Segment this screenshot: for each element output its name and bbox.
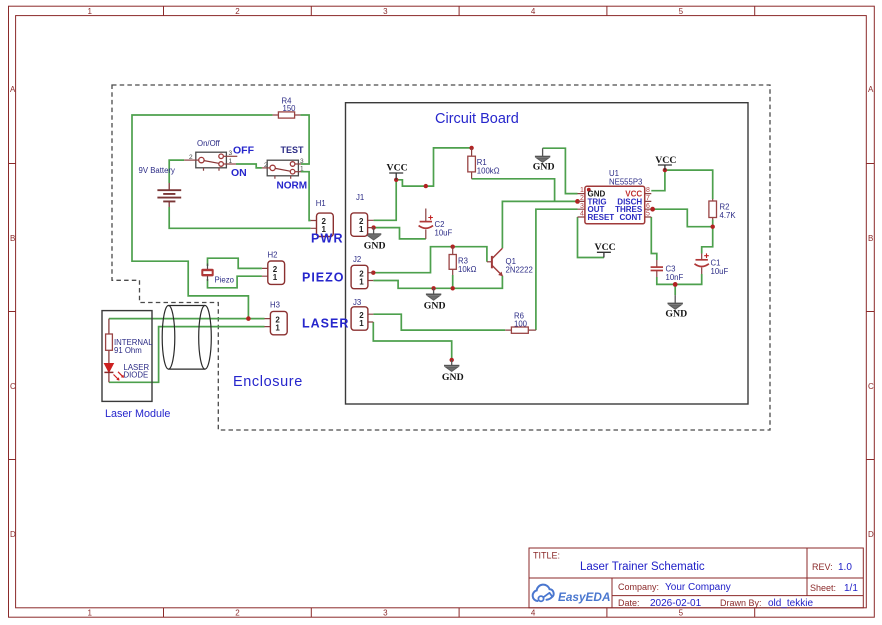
svg-text:B: B (10, 234, 15, 243)
junction J2 pin2 node (371, 271, 375, 275)
connector H2 (262, 251, 285, 285)
junction J3 GND node (450, 358, 454, 362)
svg-text:VCC: VCC (387, 163, 408, 174)
svg-text:ON: ON (231, 167, 247, 179)
junction R3 top node (451, 245, 455, 249)
svg-text:Piezo: Piezo (215, 276, 235, 285)
wire R1 bottom to TRIG net (472, 179, 555, 202)
svg-text:10kΩ: 10kΩ (458, 265, 477, 274)
junction C2 top node (424, 184, 428, 188)
junction J1 pin1 GND node (371, 225, 375, 229)
svg-text:GND: GND (364, 241, 386, 252)
wire R6 left to J3 pin2 (373, 314, 505, 330)
wire C2+ to R1 top (426, 148, 472, 186)
wire VCC right to 555 pin8 (651, 170, 665, 191)
switch S1 On/Off (184, 139, 237, 171)
wire battery+ to switch (169, 160, 184, 183)
svg-text:RESET: RESET (588, 213, 615, 222)
svg-text:CONT: CONT (620, 213, 643, 222)
resistor R3 10k (449, 247, 476, 275)
wire VCC to J1 pin2 (374, 180, 397, 221)
cable sleeve (162, 306, 211, 370)
TITLEBLOCK (529, 548, 863, 609)
svg-text:1: 1 (275, 323, 280, 332)
svg-text:10uF: 10uF (711, 267, 729, 276)
svg-text:150: 150 (283, 104, 297, 113)
svg-text:J3: J3 (353, 298, 361, 307)
wire laser module internal (108, 319, 110, 383)
junction THRES node (650, 207, 655, 212)
GND symbol R3 (424, 288, 446, 311)
wire NORM to H1 pin2 (301, 172, 311, 221)
svg-text:1/1: 1/1 (844, 583, 858, 594)
wire THRES to R2 bottom (651, 209, 712, 227)
svg-text:6: 6 (646, 203, 650, 210)
capacitor C3 10nF (651, 260, 684, 282)
svg-text:REV:: REV: (812, 562, 833, 572)
laser diode D1 (104, 363, 149, 381)
GND symbol top (533, 148, 555, 172)
svg-text:2: 2 (235, 7, 240, 16)
svg-text:Your Company: Your Company (665, 582, 731, 593)
enclosure dashed outline (112, 85, 770, 430)
wire R2 bottom to C1 top (702, 220, 713, 254)
svg-text:5: 5 (679, 609, 684, 618)
svg-text:H1: H1 (316, 199, 326, 208)
capacitor C2 10uF (419, 209, 453, 239)
connector H3 (265, 301, 288, 335)
svg-text:LASER: LASER (302, 317, 349, 331)
junction R1 top node (469, 146, 473, 150)
resistor R1 100k (468, 148, 500, 179)
wire OUT to R6 (536, 209, 578, 330)
svg-text:DIODE: DIODE (124, 371, 149, 380)
svg-text:GND: GND (533, 162, 555, 173)
EasyEDA logo (533, 585, 611, 604)
svg-text:Laser Module: Laser Module (105, 408, 170, 420)
svg-text:Laser Trainer Schematic: Laser Trainer Schematic (580, 561, 705, 573)
svg-text:Enclosure: Enclosure (233, 374, 303, 390)
svg-text:B: B (868, 234, 873, 243)
svg-text:1: 1 (359, 225, 364, 234)
svg-text:C: C (10, 382, 16, 391)
wire laser return to H3 pin1 (109, 327, 265, 383)
svg-text:2N2222: 2N2222 (506, 266, 533, 275)
junction R3 bottom node (451, 286, 455, 290)
wire VCC to C2+ (396, 180, 426, 186)
svg-text:Company:: Company: (618, 582, 659, 592)
svg-text:J2: J2 (353, 255, 361, 264)
svg-text:2: 2 (235, 609, 240, 618)
svg-text:D: D (10, 530, 16, 539)
svg-text:PWR: PWR (311, 232, 344, 246)
resistor R2 4.7K (709, 199, 736, 220)
svg-text:1: 1 (273, 273, 278, 282)
svg-text:100kΩ: 100kΩ (477, 167, 500, 176)
wire J3 pin1 to GND (373, 322, 451, 360)
GND symbol J1 (364, 228, 386, 252)
connector H1 (311, 199, 334, 237)
svg-text:100: 100 (514, 320, 528, 329)
junction GND rail node (431, 286, 435, 290)
GND symbol C3 C1 (665, 295, 687, 320)
svg-text:1: 1 (87, 7, 92, 16)
wire piezo top to H2 pin2 (208, 258, 262, 268)
resistor internal 91 Ohm (106, 334, 154, 355)
VCC symbol left (387, 163, 408, 180)
svg-text:9V Battery: 9V Battery (139, 166, 176, 175)
svg-text:1: 1 (300, 166, 304, 173)
wire VCC right to R2 top (665, 170, 713, 199)
wire TRIG to Q1 collector (502, 201, 577, 248)
svg-text:J1: J1 (356, 193, 364, 202)
svg-text:Sheet:: Sheet: (810, 583, 836, 593)
junction VCC-J1 node (394, 178, 398, 182)
svg-text:NE555P3: NE555P3 (609, 178, 642, 187)
svg-text:2: 2 (189, 154, 193, 161)
svg-text:3: 3 (383, 609, 388, 618)
svg-text:GND: GND (442, 372, 464, 383)
resistor R4 150 (273, 97, 301, 119)
svg-text:PIEZO: PIEZO (302, 271, 345, 285)
svg-text:2: 2 (580, 195, 584, 202)
junction TRIG node (575, 199, 580, 204)
laser module box (102, 311, 170, 420)
svg-text:3: 3 (300, 158, 304, 165)
wire J2 pin2 to R3 top to Q1 base (373, 247, 487, 273)
svg-text:GND: GND (665, 309, 687, 320)
wire piezo bottom to H2 pin1 (208, 276, 262, 288)
svg-text:10uF: 10uF (435, 229, 453, 238)
wire battery- to H1 pin1 (169, 207, 310, 228)
IC U1 NE555P3 (578, 169, 652, 224)
transistor Q1 2N2222 (487, 248, 533, 276)
svg-text:5: 5 (679, 7, 684, 16)
svg-text:A: A (10, 85, 16, 94)
piezo buzzer (202, 264, 235, 285)
connector J3 (351, 298, 373, 330)
svg-text:1: 1 (580, 187, 584, 194)
svg-text:91 Ohm: 91 Ohm (114, 346, 142, 355)
svg-text:EasyEDA: EasyEDA (558, 590, 610, 604)
svg-text:C: C (868, 382, 874, 391)
capacitor C1 10uF (695, 253, 729, 275)
svg-text:H2: H2 (268, 251, 278, 260)
connector J1 (351, 193, 374, 236)
svg-text:VCC: VCC (595, 242, 616, 253)
svg-text:On/Off: On/Off (197, 139, 221, 148)
wire GND to 555 pin1 (543, 148, 578, 193)
svg-text:D: D (868, 530, 874, 539)
svg-text:GND: GND (424, 301, 446, 312)
circuit board outline (346, 103, 749, 404)
connector J2 (351, 255, 373, 289)
wire ON: switch1 pin1 to TEST pin2 (236, 164, 262, 168)
wire R3 bottom (452, 275, 454, 288)
svg-text:3: 3 (229, 150, 233, 157)
svg-text:1: 1 (87, 609, 92, 618)
svg-text:Drawn By:: Drawn By: (720, 598, 762, 608)
svg-text:5: 5 (646, 211, 650, 218)
svg-text:OFF: OFF (233, 145, 255, 157)
junction R2 bottom node (711, 225, 715, 229)
svg-text:3: 3 (383, 7, 388, 16)
VCC symbol mid (595, 242, 616, 257)
wire CONT to C3 top (651, 217, 657, 260)
svg-text:TITLE:: TITLE: (533, 551, 560, 561)
resistor R6 100 (505, 312, 536, 334)
wire R4 to TEST pin3 (300, 115, 309, 164)
svg-text:1: 1 (359, 319, 364, 328)
wire RESET to VCC (578, 217, 604, 258)
svg-text:4: 4 (531, 7, 536, 16)
svg-text:1: 1 (359, 277, 364, 286)
svg-text:old_tekkie: old_tekkie (768, 598, 813, 609)
svg-text:Circuit Board: Circuit Board (435, 111, 519, 127)
battery BT 9V (139, 166, 182, 207)
VCC symbol right (655, 155, 676, 170)
svg-text:Date:: Date: (618, 598, 640, 608)
wire C3 C1 bottoms to GND (657, 274, 702, 295)
svg-text:A: A (868, 85, 874, 94)
svg-text:10nF: 10nF (666, 273, 684, 282)
svg-text:2026-02-01: 2026-02-01 (650, 598, 702, 609)
svg-text:H3: H3 (270, 301, 280, 310)
GND symbol J3 (442, 360, 464, 383)
svg-text:4: 4 (580, 211, 584, 218)
switch S2 TEST (262, 145, 304, 179)
junction H3 pin2 node (246, 316, 251, 321)
svg-text:8: 8 (646, 187, 650, 194)
svg-text:4: 4 (531, 609, 536, 618)
wire J1 pin1 to C2- (374, 228, 426, 239)
svg-text:NORM: NORM (277, 181, 308, 192)
junction C3-C1 GND node (673, 282, 678, 287)
svg-text:1.0: 1.0 (838, 562, 852, 573)
svg-text:TEST: TEST (281, 145, 305, 155)
wire top rail to R4 (132, 115, 273, 319)
wire laser wire1 to H3 pin2 (109, 318, 265, 320)
svg-text:2: 2 (264, 162, 268, 169)
junction VCC right node (663, 168, 667, 172)
svg-text:3: 3 (580, 203, 584, 210)
svg-text:VCC: VCC (655, 155, 676, 166)
svg-text:1: 1 (229, 158, 233, 165)
svg-text:4.7K: 4.7K (720, 211, 737, 220)
wire J2 pin1 to GND rail to Q1 emitter (373, 276, 502, 289)
svg-text:7: 7 (646, 195, 650, 202)
